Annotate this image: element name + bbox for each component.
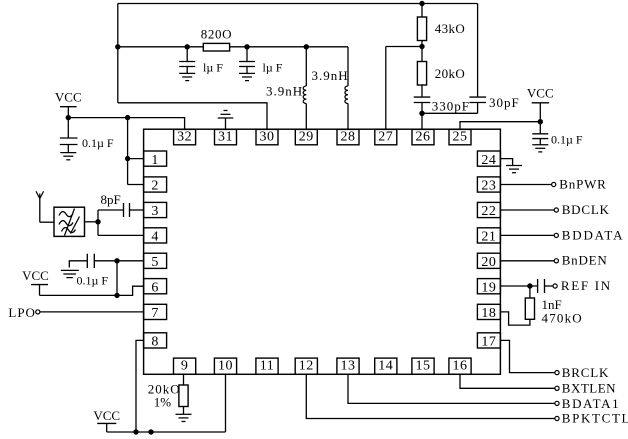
node inductor L1 tap: [304, 44, 309, 49]
power VCC top-left: [55, 90, 82, 118]
pin 23: [477, 177, 500, 194]
svg-text:24: 24: [481, 153, 496, 168]
pin 27: [375, 129, 397, 144]
pin 6: [144, 279, 167, 296]
wire pin 8 down to rail: [136, 340, 144, 432]
terminal BPKTCTL: [555, 416, 559, 420]
svg-text:3: 3: [151, 204, 159, 219]
node VCC stem junction: [66, 115, 71, 120]
node branch to pins 1-2: [125, 115, 130, 120]
capacitor C5 0.1uF: [532, 134, 548, 139]
pin 16: [449, 358, 471, 374]
wire C6 to ground: [67, 145, 69, 153]
filter FL1 symbol: [59, 209, 80, 236]
svg-text:BDATA1: BDATA1: [562, 396, 620, 411]
pin 7: [144, 304, 167, 321]
svg-text:0.1µ F: 0.1µ F: [77, 273, 109, 287]
pin 15: [412, 358, 434, 374]
wire C3 to node: [421, 103, 423, 114]
svg-text:VCC: VCC: [55, 90, 82, 105]
wire C5 to ground: [539, 139, 541, 145]
svg-text:20kO: 20kO: [435, 66, 466, 81]
wire pin 9 to R4: [183, 374, 185, 385]
wire node to C4 bottom: [422, 112, 478, 114]
wire node to C7: [98, 209, 124, 211]
wire down to pin 2 level: [127, 159, 129, 185]
wire C9 to terminal: [545, 285, 554, 287]
wire C8 right lead: [94, 260, 117, 262]
node pin5/6 branch lower: [114, 293, 119, 298]
wire VCC node to C5: [539, 122, 541, 134]
svg-text:820O: 820O: [201, 27, 232, 42]
wire pin 22 BDCLK: [500, 209, 554, 211]
wire pin 13 to BDATA1: [348, 374, 555, 403]
svg-text:19: 19: [481, 280, 496, 295]
wire pin 16 to BXTLEN: [460, 374, 555, 388]
wire supply rail right segment: [230, 46, 348, 48]
svg-text:27: 27: [378, 129, 393, 144]
pin 32: [174, 129, 196, 144]
wire pin 25 to VCC node: [460, 122, 540, 130]
wire VCC node to C6: [67, 118, 69, 138]
node cap C2 tap: [244, 44, 249, 49]
terminal BnPWR: [552, 182, 556, 186]
pin 22: [477, 202, 500, 219]
wire C1 stem: [186, 47, 188, 62]
pin 1: [144, 151, 167, 168]
pin 11: [256, 358, 278, 374]
svg-text:25: 25: [453, 129, 468, 144]
ground under C6: [60, 153, 76, 160]
node REF IN junction: [527, 283, 532, 288]
capacitor C2 1uF: [239, 62, 255, 67]
svg-text:5: 5: [151, 255, 159, 270]
wire R4 to ground: [183, 407, 185, 415]
wire antenna to filter: [40, 221, 54, 223]
pin 13: [337, 358, 359, 374]
svg-text:VCC: VCC: [22, 268, 49, 283]
node rail junction 2: [148, 429, 153, 434]
capacitor C7 8pF: [124, 203, 130, 217]
svg-text:20: 20: [481, 255, 496, 270]
terminal BRCLK: [555, 371, 559, 375]
svg-text:26: 26: [416, 129, 431, 144]
wire node jog to pin 6: [117, 286, 144, 295]
wire pin 20 BnDEN: [500, 260, 554, 262]
svg-text:9: 9: [181, 358, 189, 373]
svg-text:BDDATA: BDDATA: [562, 227, 624, 242]
svg-text:11: 11: [260, 358, 274, 373]
wire supply rail left segment: [118, 46, 204, 48]
terminal BDDATA: [554, 233, 558, 237]
resistor R1 820O: [203, 43, 229, 51]
wire LPO to pin 7: [40, 311, 144, 313]
pin 28: [337, 129, 359, 144]
svg-text:12: 12: [299, 358, 314, 373]
svg-text:28: 28: [341, 129, 356, 144]
terminal BXTLEN: [555, 386, 559, 390]
wire R3 to C3: [421, 85, 423, 97]
svg-text:REF IN: REF IN: [561, 278, 612, 293]
ground under C8 lead: [61, 270, 79, 277]
wire C8 left lead: [69, 261, 87, 268]
svg-text:6: 6: [151, 280, 159, 295]
wire pin 12 to BPKTCTL: [306, 374, 555, 418]
svg-text:BDCLK: BDCLK: [562, 202, 610, 217]
pin 18: [477, 304, 500, 321]
node pin5 branch: [114, 258, 119, 263]
wire pin 21 BDDATA: [500, 234, 554, 236]
svg-text:0.1µ F: 0.1µ F: [551, 133, 583, 147]
svg-text:lµ F: lµ F: [263, 61, 283, 75]
svg-text:2: 2: [151, 179, 159, 194]
svg-text:1: 1: [151, 153, 159, 168]
ground under C1: [179, 73, 195, 80]
pin 10: [214, 358, 236, 374]
ground above pin 31 (inverted): [218, 111, 234, 130]
svg-text:7: 7: [151, 306, 159, 321]
svg-text:3.9nH: 3.9nH: [266, 84, 303, 99]
pin 30: [256, 129, 278, 144]
pin 12: [295, 358, 317, 374]
svg-text:13: 13: [341, 358, 356, 373]
pin 19: [477, 279, 500, 296]
wire R2 top stem: [421, 4, 423, 18]
wire C2 lower stem: [246, 67, 248, 74]
antenna ANT1: [36, 191, 44, 222]
svg-text:3.9nH: 3.9nH: [312, 68, 349, 83]
svg-text:4: 4: [151, 230, 159, 245]
ground under C2: [239, 73, 255, 80]
svg-text:18: 18: [481, 306, 496, 321]
ground at pin 24: [506, 166, 522, 173]
pin 31: [215, 129, 237, 144]
pin 29: [295, 129, 317, 144]
wire VCC to pin 32: [68, 118, 184, 130]
IC U1 body outline: [144, 129, 501, 374]
wire filter to node: [85, 221, 99, 223]
wire junction to pin 27 horizontal: [386, 46, 422, 48]
svg-text:15: 15: [416, 358, 431, 373]
wire C7 to pin 3: [130, 209, 144, 211]
inductor L2 3.9nH to pin 28: [345, 47, 348, 129]
wire bottom rail: [107, 431, 226, 433]
pin 5: [144, 253, 167, 270]
wire to pin 1: [128, 158, 144, 160]
wire node to pin 4: [98, 234, 144, 236]
svg-text:30pF: 30pF: [489, 95, 520, 110]
wire left edge of loop: [117, 4, 119, 103]
node pin1 branch: [125, 156, 130, 161]
wire R2 to R3: [421, 41, 423, 62]
resistor R4 20kO 1%: [179, 385, 188, 407]
pin 3: [144, 202, 167, 219]
svg-text:29: 29: [299, 129, 314, 144]
capacitor C6 0.1uF: [60, 138, 78, 145]
pin 8: [144, 333, 167, 350]
svg-text:BRCLK: BRCLK: [562, 365, 609, 380]
wire down to pin 27: [385, 47, 387, 130]
pin 9: [174, 358, 196, 374]
wire top bus: [118, 3, 478, 5]
resistor R3 20kO: [417, 62, 426, 86]
svg-text:17: 17: [481, 335, 496, 350]
svg-text:31: 31: [218, 129, 233, 144]
svg-text:BPKTCTL: BPKTCTL: [562, 410, 628, 425]
resistor R2 43kO: [417, 17, 426, 41]
pin 2: [144, 177, 167, 194]
terminal LPO: [36, 310, 40, 314]
ground under C5: [532, 145, 548, 152]
wire node to pin 5: [117, 260, 144, 262]
node antenna feed junction: [95, 219, 100, 224]
terminal BDCLK: [554, 208, 558, 212]
wire C2 stem: [246, 47, 248, 62]
capacitor C1 1uF: [179, 62, 195, 67]
svg-text:22: 22: [481, 204, 496, 219]
pin 20: [477, 253, 500, 270]
pin 14: [375, 358, 397, 374]
svg-text:14: 14: [378, 358, 393, 373]
wire loop bottom to pin 30: [118, 103, 267, 129]
svg-text:330pF: 330pF: [432, 99, 470, 114]
svg-text:43kO: 43kO: [435, 21, 466, 36]
pin 4: [144, 228, 167, 245]
svg-text:0.1µ F: 0.1µ F: [82, 136, 114, 150]
svg-text:1%: 1%: [154, 395, 172, 410]
resistor R5 470kO: [525, 298, 534, 319]
wire rail up to pin 10: [225, 374, 227, 432]
svg-text:32: 32: [177, 129, 192, 144]
pin 25: [449, 129, 471, 144]
capacitor C8 0.1uF: [87, 254, 94, 268]
node R2/R3 junction: [419, 44, 424, 49]
wire VCC to node: [40, 294, 118, 296]
wire node up: [116, 261, 118, 296]
svg-text:16: 16: [453, 358, 468, 373]
svg-text:470kO: 470kO: [542, 310, 583, 325]
svg-text:30: 30: [260, 129, 275, 144]
power VCC right: [527, 86, 554, 122]
pin 26: [412, 129, 434, 144]
wire pin 19 to C9: [500, 285, 537, 287]
ground under R4: [176, 414, 192, 421]
svg-text:VCC: VCC: [93, 408, 120, 423]
svg-text:VCC: VCC: [527, 86, 554, 101]
node VCC right junction: [538, 119, 543, 124]
pin 24: [477, 151, 500, 168]
filter FL1 box: [54, 207, 85, 236]
pin 21: [477, 228, 500, 245]
svg-text:LPO: LPO: [8, 305, 36, 320]
inductor L1 3.9nH to pin 29: [303, 47, 306, 129]
power VCC left-middle: [22, 268, 49, 296]
terminal REF IN: [553, 284, 557, 288]
node rail-left junction: [115, 44, 120, 49]
wire to pin 2: [128, 184, 144, 186]
svg-text:10: 10: [218, 358, 233, 373]
node cap C1 tap: [185, 44, 190, 49]
wire node to pin 26: [421, 113, 423, 129]
svg-text:8pF: 8pF: [101, 192, 121, 207]
wire node vertical: [97, 210, 99, 235]
node C3/C4/pin26 junction: [419, 111, 424, 116]
svg-text:BnPWR: BnPWR: [559, 176, 606, 191]
capacitor C3 330pF: [414, 97, 431, 102]
svg-text:BXTLEN: BXTLEN: [562, 381, 616, 396]
capacitor C4 30pF: [469, 97, 486, 102]
svg-text:21: 21: [481, 230, 496, 245]
wire node to R5: [529, 286, 531, 298]
wire R5 to pin 18: [500, 312, 530, 325]
wire pin 24 to ground: [500, 159, 512, 166]
capacitor C9 1nF: [538, 279, 545, 293]
wire C1 lower stem: [186, 67, 188, 74]
wire right edge of loop: [477, 4, 479, 98]
node pin 8 rail junction: [133, 429, 138, 434]
svg-text:8: 8: [151, 335, 159, 350]
svg-text:23: 23: [481, 179, 496, 194]
wire pin 17 to BRCLK: [500, 340, 555, 372]
node top bus / R2 junction: [419, 1, 424, 6]
terminal BnDEN: [554, 259, 558, 263]
svg-text:BnDEN: BnDEN: [562, 253, 608, 268]
power VCC bottom: [93, 408, 120, 432]
wire down to pin 1 level: [127, 118, 129, 159]
pin 17: [477, 333, 500, 350]
svg-text:lµ F: lµ F: [203, 61, 223, 75]
terminal BDATA1: [555, 401, 559, 405]
wire C4 lower stem: [477, 103, 479, 114]
wire pin 23 BnPWR: [500, 184, 551, 186]
